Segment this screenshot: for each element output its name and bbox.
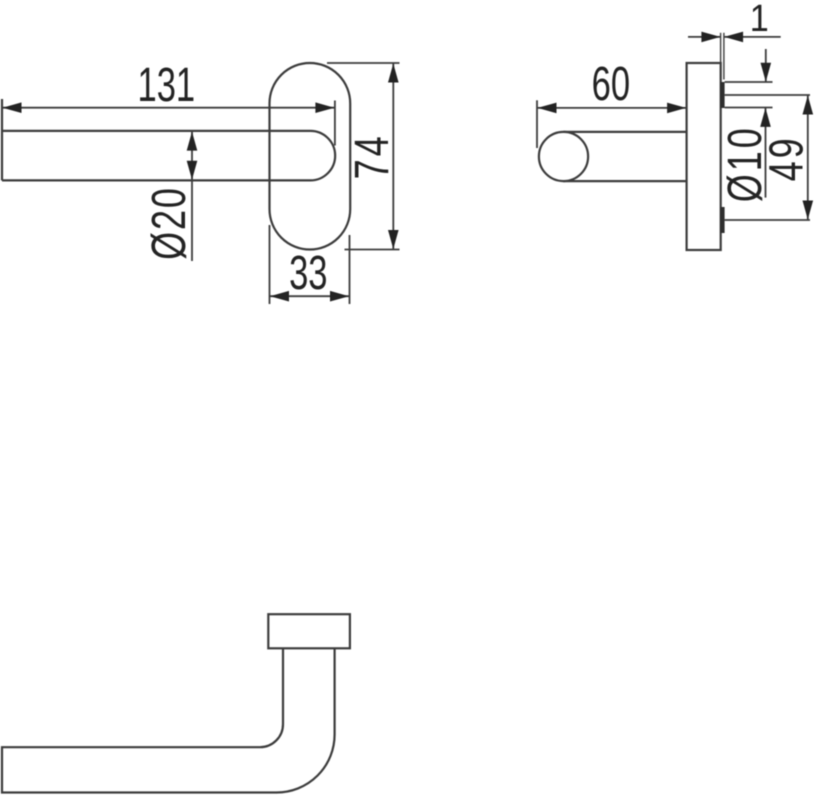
svg-text:74: 74 [345,133,398,179]
svg-text:1: 1 [750,0,769,39]
svg-text:33: 33 [289,245,327,299]
svg-text:60: 60 [592,56,630,110]
svg-text:131: 131 [137,57,195,111]
svg-text:Ø20: Ø20 [142,186,195,260]
svg-text:49: 49 [760,135,813,181]
